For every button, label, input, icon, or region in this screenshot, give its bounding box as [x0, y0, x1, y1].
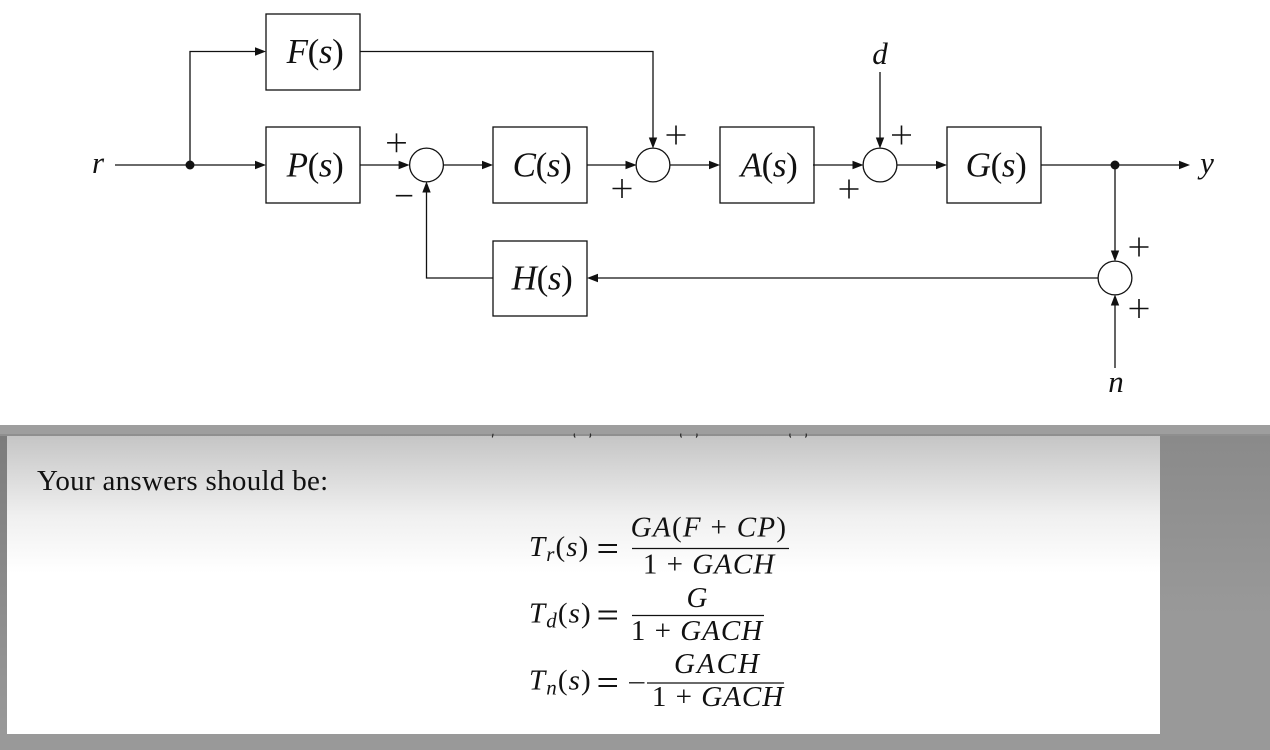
- svg-text:Tr(s): Tr(s): [529, 531, 589, 566]
- svg-text:GACH: GACH: [674, 648, 761, 680]
- svg-text:Td(s): Td(s): [529, 598, 592, 633]
- svg-text:r: r: [92, 145, 105, 180]
- svg-text:n: n: [1108, 364, 1124, 399]
- svg-text:Your answers should be:: Your answers should be:: [37, 465, 329, 497]
- svg-text:C(s): C(s): [513, 146, 572, 185]
- svg-text:G(s): G(s): [966, 146, 1027, 185]
- svg-text:1 + GACH: 1 + GACH: [643, 549, 776, 581]
- svg-text:P(s): P(s): [286, 146, 344, 185]
- svg-text:d: d: [872, 36, 888, 71]
- svg-text:1 + GACH: 1 + GACH: [652, 681, 785, 713]
- svg-text:F(s): F(s): [286, 32, 344, 71]
- svg-text:H(s): H(s): [511, 259, 573, 298]
- svg-text:G: G: [687, 582, 708, 614]
- svg-text:GA(F + CP): GA(F + CP): [631, 512, 788, 544]
- svg-text:A(s): A(s): [739, 146, 798, 185]
- svg-text:1 + GACH: 1 + GACH: [631, 615, 764, 647]
- svg-text:Tn(s): Tn(s): [529, 665, 592, 700]
- svg-text:y: y: [1197, 145, 1214, 180]
